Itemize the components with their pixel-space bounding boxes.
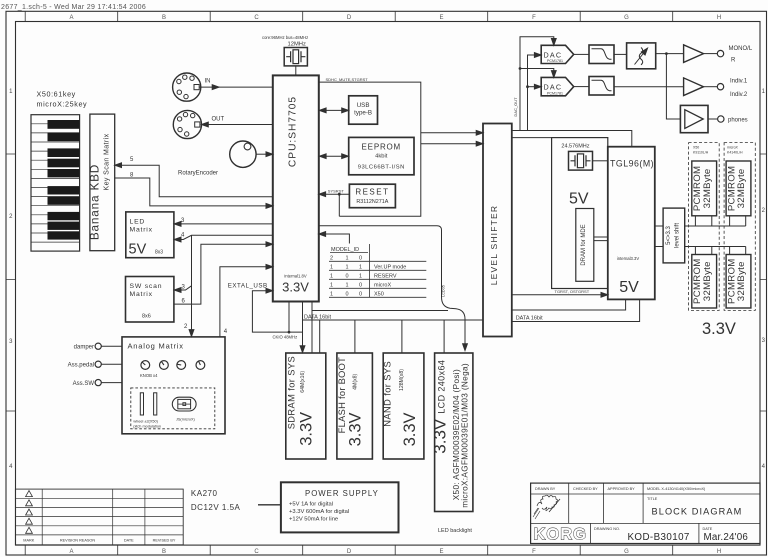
controller labels: [133, 418, 195, 429]
svg-text:32MByte: 32MByte: [736, 261, 747, 301]
wire filter1 to volume: [614, 53, 627, 55]
svg-text:4kbit: 4kbit: [375, 154, 388, 160]
junction dot SYSRST: [338, 193, 341, 196]
MIDI OUT connector: [173, 110, 201, 138]
output jack MONO/L R: [717, 50, 723, 56]
wire CPU to MIDI OUT: [202, 124, 273, 126]
right data bus to TGL96: [512, 299, 640, 321]
svg-text:TITLE: TITLE: [647, 497, 658, 501]
data bus stubs to memories: [320, 320, 444, 353]
svg-text:X50:61key: X50:61key: [37, 90, 76, 99]
svg-text:K4140L/H: K4140L/H: [727, 151, 743, 155]
svg-text:1: 1: [346, 265, 349, 271]
NAND for SYS box: [383, 353, 424, 459]
dashed group microX ROMs: [724, 143, 755, 311]
wire 8: Banana KBD to CPU: [115, 178, 271, 206]
svg-text:CPU:SH7705: CPU:SH7705: [288, 96, 299, 167]
svg-text:64M(x16): 64M(x16): [300, 371, 306, 393]
svg-text:REVISION REASON: REVISION REASON: [60, 538, 95, 542]
svg-text:1: 1: [330, 265, 333, 271]
svg-text:CHECKED BY: CHECKED BY: [573, 487, 598, 491]
wire bundle vertical to analog matrix (2): [191, 235, 193, 332]
dashed group X50 ROMs: [689, 143, 720, 311]
joystick JS(microX): [172, 397, 196, 411]
junction dot dac1: [519, 67, 522, 70]
svg-text:DATE: DATE: [703, 527, 713, 531]
wire phones out: [708, 118, 718, 120]
DRAM for MDE box: [576, 209, 594, 282]
svg-text:G: G: [624, 15, 629, 21]
Banana KBD key scan matrix box: [90, 114, 115, 251]
svg-text:+3.3V 600mA for digital: +3.3V 600mA for digital: [289, 509, 349, 515]
svg-text:SDRAM for SYS: SDRAM for SYS: [286, 356, 296, 429]
top band column letters: [69, 15, 721, 21]
svg-text:1: 1: [359, 265, 362, 271]
svg-text:DRAM for MDE: DRAM for MDE: [581, 224, 587, 265]
svg-text:Analog Matrix: Analog Matrix: [128, 342, 184, 351]
wire 6: SW scan to CPU: [174, 244, 271, 304]
svg-text:3.3V: 3.3V: [702, 320, 736, 338]
DAC U2 PCM1781: [541, 45, 574, 63]
svg-text:D: D: [347, 549, 352, 555]
svg-text:RESET: RESET: [355, 188, 389, 197]
bottom band column letters: [69, 549, 721, 555]
RESET IC box: [349, 184, 395, 208]
wire STGRST branch arrow 1 into level shifter: [421, 132, 481, 134]
wire rotary encoder to CPU: [256, 153, 271, 155]
svg-text:EEPROM: EEPROM: [362, 143, 401, 152]
svg-text:Indiv.2: Indiv.2: [730, 92, 748, 98]
keyboard black keys: [48, 120, 80, 240]
svg-text:0: 0: [359, 283, 362, 289]
svg-text:TGL96(M): TGL96(M): [610, 159, 654, 169]
knob 3: [177, 361, 186, 370]
svg-text:NAND for SYS: NAND for SYS: [383, 361, 393, 427]
modulation wheel slider: [154, 393, 157, 415]
svg-text:microX: microX: [374, 283, 391, 289]
TGL96(M) box: [608, 147, 655, 300]
wire crystal to TGL96: [593, 160, 608, 162]
wire 3: bundle jog to SW scan matrix: [176, 286, 192, 290]
knob 1: [141, 361, 150, 370]
svg-text:DATA 16bit: DATA 16bit: [304, 314, 331, 320]
svg-text:R: R: [731, 58, 736, 64]
svg-text:damper: damper: [74, 345, 94, 351]
svg-text:MARK: MARK: [23, 538, 34, 542]
bus DRAM to TGL96: [594, 237, 608, 241]
output jack phones: [718, 116, 724, 122]
svg-text:KORG: KORG: [534, 526, 588, 544]
svg-text:wheel ±2(X50): wheel ±2(X50): [133, 420, 158, 424]
wire reset net down to STGRST vertical: [338, 194, 340, 216]
svg-text:2: 2: [330, 256, 333, 262]
5-3.3 level shift box: [663, 208, 685, 263]
svg-text:X50: X50: [374, 292, 384, 298]
svg-text:DRAWN BY: DRAWN BY: [535, 487, 556, 491]
keyboard label X50:61key microX:25key: [37, 90, 88, 109]
drawn-by signature scribble: [537, 495, 558, 511]
svg-text:MONO/L: MONO/L: [729, 46, 753, 52]
svg-text:EXTAL_USB: EXTAL_USB: [228, 283, 268, 290]
left band row ticks: [6, 154, 16, 411]
wire MODEL_ID to CPU: [321, 234, 350, 244]
svg-text:12MHz: 12MHz: [288, 41, 306, 47]
wire data line A from CPU bottom to LCD curve: [312, 302, 448, 354]
svg-text:SYSRST: SYSRST: [328, 189, 345, 194]
svg-text:phones: phones: [728, 118, 748, 124]
svg-text:4M(x8): 4M(x8): [353, 373, 359, 389]
svg-text:DAC: DAC: [544, 83, 563, 92]
wire SYSRST reset to CPU: [321, 193, 350, 195]
wire DAC_OUT vertical 2: [528, 55, 539, 131]
svg-text:LCD 240x64: LCD 240x64: [437, 360, 447, 414]
svg-text:A: A: [69, 15, 73, 21]
svg-text:POWER SUPPLY: POWER SUPPLY: [305, 489, 379, 498]
wire rail lower to PCMROMs: [685, 247, 746, 255]
svg-text:MODEL_ID: MODEL_ID: [331, 247, 359, 253]
Ass.SW jack: [95, 380, 101, 386]
wire adapter to power supply: [258, 504, 281, 506]
svg-text:5V: 5V: [129, 242, 147, 258]
svg-text:Ass.pedal: Ass.pedal: [68, 363, 94, 369]
svg-text:E: E: [439, 15, 443, 21]
headphone amp box: [680, 105, 708, 132]
svg-text:LED: LED: [130, 219, 146, 226]
svg-text:USB: USB: [357, 102, 370, 109]
svg-text:internal3.3V: internal3.3V: [617, 256, 640, 261]
svg-text:PCM1781: PCM1781: [547, 91, 563, 95]
svg-text:1: 1: [330, 292, 333, 298]
svg-text:32MByte: 32MByte: [702, 261, 713, 301]
right band row ticks: [760, 154, 767, 411]
CPU U1 SH7705: [273, 75, 319, 301]
Analog Matrix box: [122, 337, 225, 434]
revision mark triangles: [26, 491, 33, 534]
svg-text:R3112N271A: R3112N271A: [356, 199, 388, 205]
wire MIDI IN to CPU: [199, 86, 273, 88]
knob 2: [160, 361, 169, 370]
PCMROM 2: [726, 161, 751, 216]
svg-text:microX: microX: [727, 146, 739, 150]
svg-text:8x3: 8x3: [155, 250, 163, 256]
wire TGRST level shifter to TGL96: [512, 294, 606, 296]
wire level shifter to DAC area and TGL96 top: [512, 131, 632, 147]
svg-text:REVISED BY: REVISED BY: [153, 538, 176, 542]
svg-text:32MByte: 32MByte: [736, 168, 747, 208]
svg-text:3.3V: 3.3V: [431, 418, 450, 454]
wire DAC_OUT vertical 1: [520, 37, 554, 131]
LCD box: [435, 353, 473, 512]
svg-text:2677_1.sch-5 - Wed Mar 29 17:4: 2677_1.sch-5 - Wed Mar 29 17:41:54 2006: [1, 4, 146, 11]
svg-text:1: 1: [359, 274, 362, 280]
svg-text:SW scan: SW scan: [130, 283, 163, 290]
svg-text:Mar.24'06: Mar.24'06: [704, 532, 749, 543]
svg-text:8x6: 8x6: [142, 314, 151, 320]
wire DAC2 to filter2: [574, 86, 589, 88]
svg-text:level shift: level shift: [674, 223, 680, 248]
wire amp2 to output: [704, 86, 718, 88]
svg-text:DC12V 1.5A: DC12V 1.5A: [191, 503, 241, 512]
wire data bus line B: [303, 319, 484, 321]
svg-text:KOD-B30107: KOD-B30107: [628, 532, 690, 543]
svg-text:pitch modulation: pitch modulation: [133, 424, 161, 428]
svg-text:DRAWING NO.: DRAWING NO.: [594, 527, 620, 531]
svg-text:TGRST, OSTGRST: TGRST, OSTGRST: [555, 289, 590, 294]
svg-text:+12V 50mA for line: +12V 50mA for line: [289, 517, 338, 523]
rotary encoder: [230, 141, 256, 167]
svg-text:PCM1781: PCM1781: [547, 59, 563, 63]
output jack Indiv: [717, 84, 723, 90]
volume control box: [627, 43, 656, 69]
svg-text:DATE: DATE: [124, 538, 134, 542]
svg-text:E: E: [439, 549, 443, 555]
junction dot dac2: [526, 85, 529, 88]
title block frame: [531, 483, 760, 543]
svg-text:RotaryEncoder: RotaryEncoder: [178, 171, 218, 177]
svg-text:0: 0: [359, 256, 362, 262]
wire CKIO/EXTAL from CPU bottom: [289, 302, 303, 349]
wire volume to amp1: [656, 53, 684, 55]
LED Matrix box: [126, 212, 174, 258]
svg-text:C: C: [254, 15, 259, 21]
svg-text:0: 0: [359, 292, 362, 298]
wire DAC1 to filter1: [574, 53, 589, 55]
svg-text:BLOCK DIAGRAM: BLOCK DIAGRAM: [652, 507, 743, 517]
svg-text:FLASH for BOOT: FLASH for BOOT: [337, 357, 347, 434]
svg-text:1: 1: [330, 274, 333, 280]
wire level shifter to 5V box: [512, 137, 552, 139]
svg-text:1: 1: [346, 256, 349, 262]
svg-text:MODEL X-4130/4140(X50/microX): MODEL X-4130/4140(X50/microX): [647, 487, 706, 491]
filter (LPF) box 2: [589, 77, 614, 96]
svg-text:0: 0: [346, 292, 349, 298]
svg-text:H: H: [717, 15, 721, 21]
svg-text:1: 1: [346, 283, 349, 289]
wire 4: CPU bundle to LED matrix with jog: [176, 235, 273, 239]
junction dot CKIO: [288, 331, 291, 334]
wires TGL96 to level shift: [655, 226, 663, 247]
pitch wheel slider: [140, 393, 143, 415]
svg-text:A: A: [69, 549, 73, 555]
svg-text:B: B: [162, 549, 166, 555]
svg-text:93LC66BT-I/SN: 93LC66BT-I/SN: [358, 165, 405, 171]
wire CPU - EEPROM bidirectional: [321, 155, 347, 157]
left band row numbers: [9, 89, 13, 470]
wire CPU - USB bidirectional: [321, 109, 347, 111]
svg-text:C: C: [254, 549, 259, 555]
svg-text:D: D: [347, 15, 352, 21]
svg-text:type-B: type-B: [354, 110, 372, 117]
wire branch to DAC2 top: [520, 69, 554, 75]
crystal X1 12MHz: [284, 48, 307, 66]
filter (LPF) box 1: [589, 45, 614, 64]
bottom band column ticks: [25, 545, 673, 555]
svg-text:APPROVED BY: APPROVED BY: [608, 487, 636, 491]
PCMROM 4: [726, 255, 751, 309]
svg-text:SDHC_MUTE,STGRST: SDHC_MUTE,STGRST: [326, 77, 369, 82]
svg-text:G: G: [624, 549, 629, 555]
wire amp1 to output: [704, 53, 718, 55]
svg-text:LEVEL SHIFTER: LEVEL SHIFTER: [489, 205, 499, 285]
MODEL_ID table: [330, 247, 406, 298]
svg-text:H: H: [717, 549, 721, 555]
dashed controller group box: [131, 388, 215, 429]
svg-text:JS(microX): JS(microX): [176, 418, 196, 422]
svg-text:3.3V: 3.3V: [347, 412, 365, 446]
5V MDE domain box: [552, 138, 608, 289]
wire 3: CPU to LED matrix: [176, 223, 273, 225]
svg-text:LCD05: LCD05: [442, 285, 446, 297]
keyboard white key divisions: [31, 124, 80, 242]
svg-text:CKIO 48MHz: CKIO 48MHz: [273, 335, 298, 340]
svg-text:Indiv.1: Indiv.1: [730, 78, 748, 84]
FLASH for BOOT box: [337, 353, 373, 459]
svg-text:+5V 1A for digital: +5V 1A for digital: [289, 502, 333, 508]
EEPROM box: [349, 137, 414, 174]
wire 5: CPU to Banana KBD: [117, 165, 273, 197]
svg-text:microX:AGFM00039E01/M03 (Nega): microX:AGFM00039E01/M03 (Nega): [461, 363, 470, 508]
svg-text:3.3V: 3.3V: [282, 280, 309, 295]
wire 4: analog matrix to CPU: [220, 267, 271, 337]
svg-text:core:96MHz bus=48MHz: core:96MHz bus=48MHz: [262, 35, 308, 40]
wire STGRST branch arrow 2 into level shifter: [421, 143, 481, 145]
svg-text:F: F: [532, 549, 536, 555]
svg-text:K9110L/H: K9110L/H: [693, 151, 709, 155]
svg-text:Ver.UP mode: Ver.UP mode: [374, 265, 406, 271]
wire filter2 to amp2: [614, 86, 684, 88]
DAC U3 PCM1781: [541, 77, 574, 95]
wire STGRST from CPU to level shifter and reset: [319, 82, 421, 216]
PCMROM 1: [692, 161, 717, 216]
Ass.pedal jack: [95, 361, 101, 367]
svg-text:3.3V: 3.3V: [298, 412, 316, 446]
svg-text:IN: IN: [205, 79, 211, 85]
svg-text:F: F: [532, 15, 536, 21]
svg-text:DAC_OUT: DAC_OUT: [513, 97, 518, 117]
wire phones feed: [666, 54, 680, 119]
knob 4: [196, 361, 205, 370]
svg-text:OUT: OUT: [212, 117, 225, 123]
MIDI IN connector: [173, 73, 201, 101]
svg-text:KNOB x4: KNOB x4: [140, 373, 158, 378]
svg-text:Banana KBD: Banana KBD: [87, 164, 101, 240]
amplifier A2: [684, 78, 704, 96]
junction dot phones tap: [665, 52, 668, 55]
svg-text:Ass.SW: Ass.SW: [73, 381, 95, 387]
amplifier A1: [684, 45, 704, 63]
svg-text:Matrix: Matrix: [130, 227, 153, 234]
crystal X2 24.576MHz: [569, 151, 593, 170]
keyboard (piano) outline: [31, 115, 80, 251]
svg-text:KA270: KA270: [191, 489, 218, 498]
wire rail upper to PCMROMs: [685, 216, 746, 226]
svg-text:1: 1: [330, 283, 333, 289]
svg-text:B: B: [162, 15, 166, 21]
svg-text:24.576MHz: 24.576MHz: [561, 144, 589, 150]
svg-text:X50: X50: [693, 146, 699, 150]
revision table: [15, 489, 183, 545]
svg-text:32MByte: 32MByte: [702, 168, 713, 208]
svg-text:Key Scan Matrix: Key Scan Matrix: [103, 133, 110, 190]
SDRAM for SYS box: [286, 353, 326, 459]
svg-text:128M(x8): 128M(x8): [399, 369, 405, 391]
svg-text:5V: 5V: [569, 191, 589, 208]
wire branch to DAC2 left: [528, 86, 539, 88]
svg-text:0: 0: [346, 274, 349, 280]
svg-text:internal1.8V: internal1.8V: [284, 274, 307, 279]
POWER SUPPLY box: [281, 482, 399, 532]
SW scan Matrix box: [126, 277, 174, 323]
wire LCD control from CPU right edge: [319, 226, 465, 346]
svg-text:microX:25key: microX:25key: [37, 100, 88, 109]
top band column ticks: [25, 11, 673, 21]
damper jack: [95, 343, 101, 349]
svg-text:LED backlight: LED backlight: [438, 528, 472, 534]
wire crystal to CPU: [295, 66, 297, 76]
svg-text:3.3V: 3.3V: [401, 412, 419, 446]
svg-text:Matrix: Matrix: [130, 291, 153, 298]
PCMROM 3: [692, 255, 717, 309]
svg-text:DATA 16bit: DATA 16bit: [516, 315, 543, 321]
right band row numbers: [762, 89, 766, 470]
wire EXTAL_USB loop to CPU: [252, 291, 289, 332]
svg-text:RESERV: RESERV: [374, 274, 397, 280]
USB type-B connector box: [349, 96, 378, 124]
svg-text:5V: 5V: [619, 279, 639, 296]
svg-text:DAC: DAC: [544, 51, 563, 60]
LEVEL SHIFTER box: [483, 124, 512, 337]
svg-text:5<>3.3: 5<>3.3: [666, 225, 672, 244]
